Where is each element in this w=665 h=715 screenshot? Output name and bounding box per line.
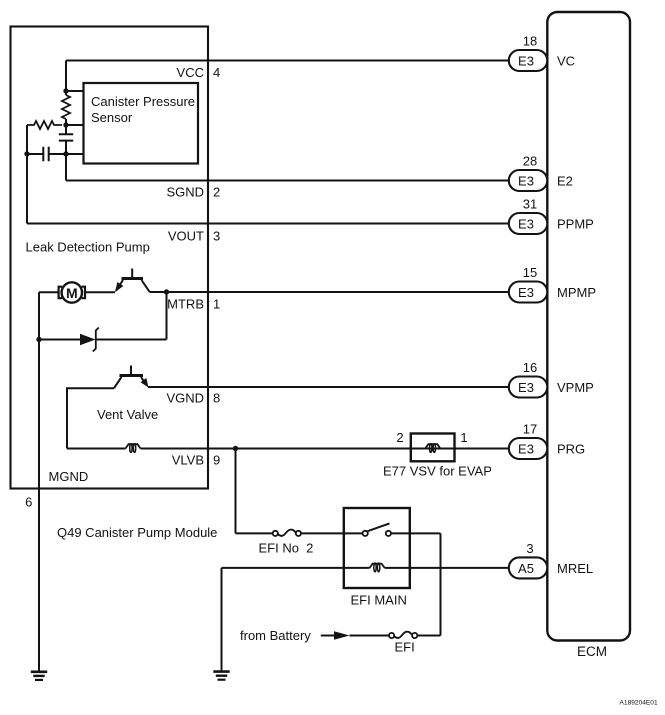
svg-text:from Battery: from Battery [240,628,311,643]
inductor E77 coil [425,444,440,448]
wire MTRB (pin 1 to ECM MPMP) [167,291,509,293]
canister pressure sensor box [84,83,199,164]
svg-text:2: 2 [213,185,220,200]
relay switch right contact [386,531,391,536]
transistor Q1 base bar [122,277,144,280]
svg-text:EFI: EFI [395,640,415,655]
wire VCC vertical drop [65,61,67,96]
wire relay coil ground vertical [221,568,223,672]
svg-text:A189204E01: A189204E01 [620,700,658,707]
motor M1 right brush bracket [82,287,85,299]
svg-text:EFI MAIN: EFI MAIN [351,593,407,608]
wire MREL coil row left [222,567,370,569]
svg-text:18: 18 [523,34,537,49]
connector E3 pin 16 (VPMP) [509,377,548,398]
transistor Q2 emitter lead [141,377,146,385]
ECM box [547,12,630,641]
ground G2 [213,670,229,673]
relay switch left contact [363,531,368,536]
svg-text:E3: E3 [518,174,534,189]
svg-text:E77 VSV for EVAP: E77 VSV for EVAP [383,464,492,479]
svg-text:Sensor: Sensor [91,110,133,125]
svg-text:Canister Pressure: Canister Pressure [91,94,195,109]
motor M1 left brush bracket [59,287,62,299]
svg-text:1: 1 [213,297,220,312]
wire VCC (pin 4 to ECM VC) [66,60,509,62]
wire diode cathode [96,339,167,341]
svg-text:E3: E3 [518,217,534,232]
node diode junction [36,337,41,342]
svg-text:VLVB: VLVB [172,453,204,468]
svg-text:MPMP: MPMP [557,285,596,300]
wire resistor to middle node [65,119,67,125]
wire diode anode [39,339,80,341]
transistor Q2 collector lead [114,377,122,388]
svg-text:1: 1 [460,430,467,445]
svg-text:15: 15 [523,265,537,280]
svg-text:VC: VC [557,54,575,69]
svg-text:A5: A5 [518,561,534,576]
svg-text:VCC: VCC [177,65,204,80]
zener diode D1 [80,334,96,346]
node sensor bottom junction [63,151,68,156]
wire motor left feed [39,291,59,293]
capacitor C2 (horizontal) [27,147,66,161]
connector E3 pin 31 (PPMP) [509,213,548,234]
wire to EFI No 2 fuse [236,532,273,534]
wire VOUT vertical [26,125,28,224]
svg-text:8: 8 [213,391,220,406]
svg-text:E2: E2 [557,174,573,189]
svg-text:9: 9 [213,453,220,468]
transistor Q1 emitter lead [116,280,123,291]
wire MREL (to ECM A5) [385,567,509,569]
svg-text:E3: E3 [518,442,534,457]
node VLVB / EFI No 2 junction [233,446,238,451]
svg-text:Q49 Canister Pump Module: Q49 Canister Pump Module [57,525,217,540]
wire battery riser vertical [440,533,442,635]
wire sensor middle pin [66,124,84,126]
wire sensor bottom pin [66,153,84,155]
transistor Q2 base stub [130,366,132,376]
node sensor middle junction [63,122,68,127]
wire SGND (pin 2 to ECM E2) [66,180,509,182]
svg-text:3: 3 [526,541,533,556]
wire VGND (pin 8 to ECM VPMP) [148,386,509,388]
wire collector to MTRB node [150,291,167,293]
wire switch to battery riser [391,532,441,534]
connector A5 pin 3 (MREL) [509,557,548,578]
svg-text:E3: E3 [518,54,534,69]
wire SGND vertical [65,154,67,181]
relay EFI MAIN box [344,508,410,588]
wire EFI fuse to riser [417,635,440,637]
wire vent valve left leg [67,388,114,448]
inductor L1 vent valve coil [126,444,141,448]
resistor R2 (horizontal) [27,121,62,129]
svg-text:3: 3 [213,229,220,244]
svg-text:PRG: PRG [557,442,585,457]
connector E3 pin 18 (VC) [509,50,548,71]
svg-text:VGND: VGND [166,391,204,406]
svg-text:28: 28 [523,154,537,169]
motor M1 [62,282,82,302]
connector E3 pin 28 (E2) [509,170,548,191]
svg-text:17: 17 [523,422,537,437]
wire battery arrow lead [321,635,334,637]
svg-text:PPMP: PPMP [557,217,594,232]
wire diode to MTRB node vertical [166,292,168,340]
svg-text:2: 2 [396,430,403,445]
svg-text:Vent Valve: Vent Valve [97,407,158,422]
fuse EFI No 2 [273,531,278,536]
wire VLVB left segment [67,448,126,450]
svg-text:4: 4 [213,65,220,80]
node MTRB junction [164,289,169,294]
wire arrow to EFI fuse [350,635,390,637]
svg-text:16: 16 [523,360,537,375]
svg-text:M: M [66,285,78,301]
transistor Q1 collector lead [142,280,150,292]
wire fuse to relay [301,532,363,534]
transistor Q2 emitter arrow [141,378,149,388]
svg-text:MREL: MREL [557,561,593,576]
ground G1 [31,670,47,673]
transistor Q1 base stub [131,269,133,279]
node sensor top junction [63,88,68,93]
svg-text:MGND: MGND [49,469,89,484]
fuse EFI [389,633,394,638]
valve E77 VSV for EVAP box [411,434,455,462]
connector E3 pin 17 (PRG) [509,438,548,459]
svg-text:SGND: SGND [166,185,204,200]
transistor Q2 base bar [120,374,144,377]
connector E3 pin 15 (MPMP) [509,282,548,303]
svg-text:E3: E3 [518,380,534,395]
transistor Q1 emitter arrow [115,282,123,292]
wire EFI No 2 branch vertical [235,449,237,534]
node VOUT branch junction [24,151,29,156]
svg-text:6: 6 [25,495,32,510]
svg-text:VOUT: VOUT [168,229,204,244]
wire left rail vertical [38,292,40,671]
svg-text:MTRB: MTRB [167,297,204,312]
inductor relay coil [370,564,385,568]
svg-text:31: 31 [523,197,537,212]
svg-text:EFI No 2: EFI No 2 [259,541,314,556]
capacitor C1 (vertical) [59,125,73,154]
resistor R1 (vertical) [62,95,70,119]
svg-text:E3: E3 [518,285,534,300]
relay switch blade [368,523,390,531]
svg-text:Leak Detection Pump: Leak Detection Pump [26,240,150,255]
wire sensor top pin [66,90,84,92]
battery arrow [334,631,350,640]
Q49 Canister Pump Module box [11,27,209,489]
svg-text:VPMP: VPMP [557,380,594,395]
wire VLVB (pin 9 to ECM PRG) [141,448,509,450]
wire VOUT (pin 3 to ECM PPMP) [27,223,509,225]
wire motor to transistor [85,291,115,293]
svg-text:ECM: ECM [577,644,607,659]
